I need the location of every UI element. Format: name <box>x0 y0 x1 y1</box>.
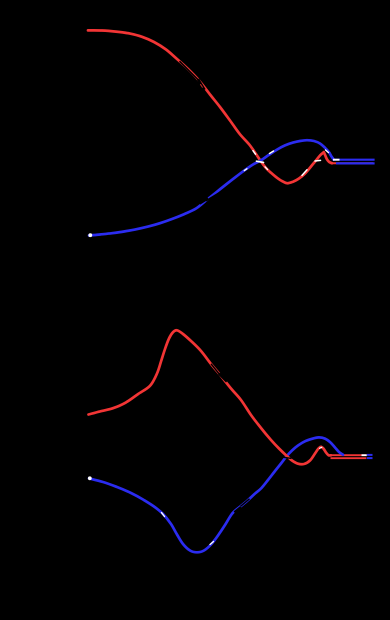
lower panel: white dash on blue rising arm <box>210 542 214 545</box>
lower panel: red coupling curve <box>89 330 332 464</box>
upper panel: blue overlay on lower asymptote line <box>336 162 375 164</box>
lower panel: white dash on blue descending arm <box>162 513 165 517</box>
lower panel: lower flat line (red) <box>331 457 367 459</box>
lower panel: white dash on upper flat line <box>362 454 367 456</box>
lower panel: black dash at curve crossing <box>279 457 292 459</box>
upper panel: white dash on blue left of crossing <box>244 169 247 171</box>
upper panel: lower flat asymptote line (red, state 2) <box>331 162 374 164</box>
lower panel: white start marker of blue curve <box>88 476 92 480</box>
upper panel: red curve tail behind blue (avoided-crossing descent) <box>324 152 332 163</box>
lower panel: white dash on red wiggle peak <box>320 447 322 448</box>
upper panel: blue adiabatic energy curve <box>89 140 334 235</box>
upper panel: white dash on red above crossing <box>253 151 256 155</box>
upper panel: red adiabatic energy curve <box>88 30 324 183</box>
upper panel: faint red wisp inside break <box>200 84 202 87</box>
upper panel: black dashed overlap on red descent <box>180 61 199 80</box>
lower panel: blue tip of lower flat line <box>367 457 373 459</box>
upper panel: white dash at start of upper asymptote <box>333 159 340 161</box>
upper panel: black dash left of crossing <box>254 160 260 163</box>
upper panel: black dashed overlap on blue ascent <box>206 192 221 201</box>
lower panel: black dash cutting red (break) <box>219 374 227 382</box>
upper panel: white dash on blue right of crossing <box>270 151 274 154</box>
upper panel: upper flat asymptote line (blue, state 1) <box>333 159 375 161</box>
upper panel: white dash at curve crossing <box>257 161 264 162</box>
lower panel: upper flat line (red) <box>330 454 367 456</box>
upper panel: white dash on red rising segment 1 <box>302 170 307 176</box>
lower panel: blue tip of upper flat line <box>367 454 373 456</box>
upper panel: white start marker of blue curve <box>88 233 92 237</box>
upper panel: white dash on red rising segment 2 <box>315 159 321 162</box>
upper panel: white dash on blue descending <box>326 150 329 153</box>
lower panel: blue coupling curve <box>89 437 343 552</box>
upper panel: black dash cutting blue (break) <box>200 198 209 203</box>
lower panel: black dash cutting blue (break) <box>235 507 242 512</box>
upper panel: white dash on red below crossing <box>265 167 268 170</box>
lower panel: black dashed overlap on blue ascent <box>241 499 250 507</box>
upper panel: black dash cutting red (break) <box>198 79 205 90</box>
lower panel: black dashed overlap on red descent <box>211 364 220 375</box>
